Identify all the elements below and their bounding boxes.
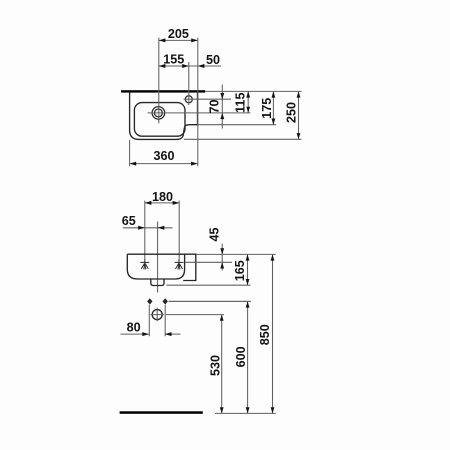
dimension 180 left arrow [145,201,152,205]
extension line trap bottom for 165 [166,284,250,286]
svg-text:115: 115 [234,93,248,113]
svg-text:80: 80 [127,320,141,334]
svg-text:600: 600 [234,346,248,367]
extension line basin top for 850 [196,253,275,255]
extension line fixing holes for 600 [169,300,251,302]
dimension 165 line [247,254,249,285]
dimension 65 left arrow [138,226,145,230]
dimension 45 lower arrow [220,262,224,268]
dimension 70 lower arrow [220,113,224,119]
tap hole centerline vertical / extension for 155 [188,62,190,105]
dimension 205 line [159,39,198,41]
floor line (thick) [120,411,203,414]
dimension 530 line [221,315,223,414]
dimension 850 line [272,254,274,413]
dimension 115 lower arrow [246,107,250,113]
dimension 175 lower arrow [272,119,276,125]
left fixing hole diamond [147,298,152,304]
dimension 850 lower arrow [271,407,275,413]
dimension 165 lower arrow [246,279,250,285]
dimension 600 line [247,301,249,413]
dimension 205 right arrow [191,38,198,42]
dimension 250 upper arrow [297,91,301,97]
dimension 360 right arrow [191,162,198,166]
svg-text:165: 165 [233,260,247,281]
dimension 180 line [145,202,179,204]
dimension 65 right arrow [158,226,165,230]
svg-text:205: 205 [168,27,189,41]
dimension 600 upper arrow [246,301,250,307]
dimension 600 lower arrow [246,407,250,413]
dimension 80 left arrow [142,332,149,336]
left tap hole symbol (elevation) [140,259,149,270]
wall drain crosshair horizontal [150,314,164,316]
svg-text:530: 530 [208,355,222,376]
basin bowl profile (elevation) [127,254,184,279]
drain hole inner circle [154,109,162,117]
dimension 155 left arrow [159,64,166,68]
dimension 115 line [247,91,249,113]
basin inner bowl outline (plan) [134,103,185,137]
dimension 80 left line [121,333,149,335]
basin outer outline (plan) [130,92,198,139]
dimension 360 left arrow [130,162,137,166]
drain trap outline (elevation) [151,279,164,285]
dimension 175 upper arrow [272,91,276,97]
extension line right edge (plan) [197,38,199,167]
dimension 70 line [221,85,223,129]
extension line left edge for 360 [129,140,131,166]
dimension 250 lower arrow [297,133,301,139]
svg-text:50: 50 [206,53,220,67]
dimension 360 line [130,163,198,165]
extension line tap level for 45 [185,261,232,263]
dimension 45 line [221,244,223,271]
extension line right fixing hole for 80 [164,305,166,336]
dimension 50 arrow [198,64,205,68]
extension line left tap hole (elevation) [144,201,146,259]
svg-text:65: 65 [122,214,136,228]
right tap hole symbol (elevation) [175,259,184,270]
extension line left fixing hole for 80 [148,305,150,336]
right fixing hole diamond [163,298,168,304]
svg-text:250: 250 [285,102,299,123]
dimension 175 line [272,91,274,124]
dimension 70 upper arrow [220,93,224,99]
dimension 850 upper arrow [271,254,275,260]
svg-text:180: 180 [152,190,173,204]
dimension 530 upper arrow [220,315,224,321]
svg-text:70: 70 [208,99,222,113]
svg-text:850: 850 [258,324,272,345]
dimension 205 left arrow [159,38,166,42]
basin outer outline (elevation) [127,254,196,280]
dimension 80 right arrow [165,332,172,336]
extension line drain outlet for 530 [166,314,224,316]
dimension 45 upper arrow [220,248,224,254]
svg-text:175: 175 [260,98,274,119]
dimension 115 upper arrow [246,91,250,97]
dimension 180 right arrow [173,201,180,205]
wall drain outlet circle [152,310,162,320]
svg-text:45: 45 [208,227,222,241]
dimension 80 right line [165,333,181,335]
svg-text:360: 360 [153,149,174,163]
drain centerline vertical / extension for 205 and 155 [158,38,160,124]
tap hole centerline horizontal / extension for 70 [184,98,231,100]
dimension 165 upper arrow [246,254,250,260]
wall line (plan view, thick back edge) [121,90,205,92]
extension line basin front edge for 250 [184,138,302,140]
dimension 155 right arrow [182,64,189,68]
extension line right tap hole (elevation) [178,201,180,259]
extension line floor [215,412,276,414]
dimension 250 line [298,91,300,139]
drain hole outer circle [152,107,165,120]
extension line back edge right [205,90,301,92]
tap hole circle (plan) [185,96,192,103]
dimension 155 line [159,65,189,67]
dimension 50 line [189,65,221,67]
dimension 65 line [123,227,173,229]
svg-text:155: 155 [163,53,184,67]
wall drain crosshair vertical [156,308,158,322]
dimension 530 lower arrow [220,407,224,413]
drain centerline horizontal [148,112,251,114]
center line (elevation) [157,222,159,293]
extension line basin step for 175 [198,124,277,126]
